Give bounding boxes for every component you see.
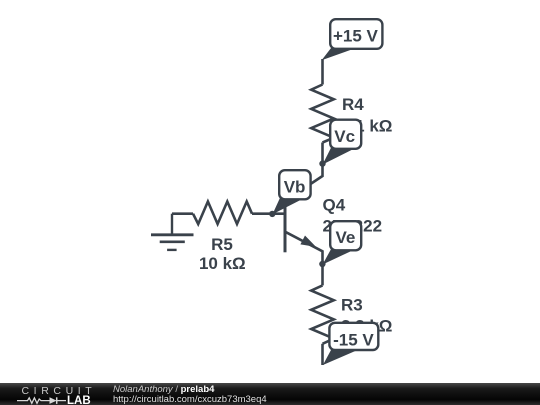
net flag Ve	[323, 221, 362, 264]
svg-text:http://circuitlab.com/cxcuzb73: http://circuitlab.com/cxcuzb73m3eq4	[113, 394, 267, 405]
transistor Q4 emitter lead	[285, 232, 323, 264]
svg-text:R5: R5	[211, 235, 233, 254]
svg-text:LAB: LAB	[67, 395, 91, 405]
wire: R5 right to base node and transistor base	[252, 212, 285, 215]
footer text: author / title	[113, 384, 215, 395]
node: collector node at Vc	[319, 160, 325, 166]
svg-text:10 kΩ: 10 kΩ	[199, 254, 246, 273]
node: emitter node at Ve	[319, 261, 325, 267]
resistor R3 zigzag	[311, 285, 334, 343]
transistor Q4 name label	[323, 196, 346, 215]
transistor Q2N2222 Q4: collector lead	[285, 164, 323, 201]
resistor R4 value 5.1 kOhm (partly hidden by Vc flag)	[341, 117, 392, 136]
net flag -15V	[323, 323, 378, 365]
wire: +15V terminal stub to R4 top	[321, 59, 324, 85]
svg-text:Ve: Ve	[335, 228, 355, 247]
net flag Vc	[323, 120, 362, 165]
svg-text:+15 V: +15 V	[333, 27, 379, 46]
resistor R5 zigzag	[193, 202, 252, 225]
wire: emitter node to R3 top	[321, 264, 324, 285]
node: base node at Vb	[269, 211, 275, 217]
svg-text:Q4: Q4	[323, 196, 346, 215]
svg-text:Vc: Vc	[334, 127, 355, 146]
footer bar	[0, 383, 540, 405]
net flag +15V	[322, 19, 383, 60]
ground	[151, 214, 194, 250]
svg-text:-15 V: -15 V	[333, 331, 374, 350]
wire: ground to R5 left	[172, 212, 193, 215]
resistor R3 label	[341, 296, 363, 315]
footer text: url	[113, 394, 267, 405]
resistor R4 zigzag	[311, 85, 334, 143]
svg-text:Vb: Vb	[284, 178, 306, 197]
resistor R5 value 10 kOhm	[199, 254, 246, 273]
CircuitLab logo: LAB word	[67, 395, 91, 405]
transistor Q4 base bar	[284, 201, 287, 252]
wire: R4 bottom to collector node	[321, 143, 324, 164]
CircuitLab logo: CIRCUIT word	[22, 385, 97, 397]
resistor R5 label	[211, 235, 233, 254]
svg-text:R4: R4	[342, 95, 364, 114]
resistor R3 value 3.3 kOhm (partly hidden by -15V flag)	[341, 317, 392, 336]
transistor Q4 model label 2N2222 (partly hidden by Ve flag)	[323, 216, 383, 235]
net flag Vb	[273, 170, 311, 214]
CircuitLab logo: wire-resistor-diode glyph	[17, 397, 66, 404]
wire: R3 bottom to -15V terminal stub	[321, 344, 324, 365]
transistor Q4 emitter arrow	[300, 236, 316, 247]
svg-text:R3: R3	[341, 296, 363, 315]
resistor R4 label	[342, 95, 364, 114]
